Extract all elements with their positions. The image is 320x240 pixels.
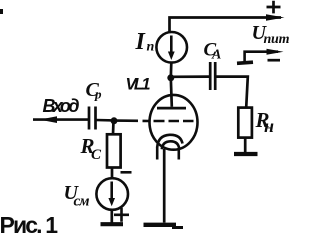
svg-text:пит: пит (264, 32, 290, 47)
anode lead (171, 78, 172, 107)
node: anode junction dot (167, 74, 174, 81)
arrow inside In (170, 36, 173, 54)
ground Ucm (101, 222, 124, 226)
terminal arrow + of Upit (266, 14, 285, 21)
grid dashed electrode (154, 120, 194, 123)
page edge mark (0, 9, 3, 14)
plus sign Ucm (114, 208, 129, 222)
minus sign Upit (268, 59, 281, 62)
wire: node to grid (114, 119, 150, 122)
negative supply terminal stub (237, 62, 253, 63)
wire: top supply rail (170, 18, 282, 32)
resistor Rn (238, 108, 252, 138)
svg-text:А: А (211, 48, 221, 63)
wire: Ucm to ground (110, 210, 113, 223)
wire: Rn to ground (244, 138, 247, 152)
wire: stub to minus arrow (245, 52, 278, 63)
svg-text:Вход: Вход (43, 96, 80, 116)
svg-text:Рис. 1: Рис. 1 (0, 212, 58, 238)
cathode arc (157, 135, 182, 148)
input wire (33, 118, 89, 121)
minus sign Ucm (121, 171, 132, 174)
heater arc (162, 141, 180, 149)
capacitor Ca (209, 62, 212, 90)
cathode left lead (156, 147, 159, 160)
tube VL1 envelope (150, 95, 198, 150)
svg-text:н: н (264, 116, 274, 136)
node: grid junction dot (111, 117, 118, 124)
terminal arrow - of Upit (267, 49, 284, 55)
plus sign Upit (267, 1, 281, 14)
wire: cathode to ground (163, 149, 166, 223)
heater right lead (178, 148, 181, 160)
input arrow (40, 116, 58, 123)
svg-text:р: р (94, 87, 102, 102)
wire: Rc to Ucm (111, 168, 114, 179)
svg-text:п: п (147, 40, 155, 55)
wire: Cp to grid node (96, 119, 114, 122)
svg-text:VL1: VL1 (126, 76, 151, 94)
svg-text:С: С (91, 147, 102, 163)
current source In circle (156, 32, 187, 63)
capacitor Cp (88, 107, 91, 130)
source Ucm circle (96, 178, 128, 210)
ground cathode (144, 223, 177, 227)
ground Rn (234, 152, 258, 156)
svg-text:см: см (74, 194, 90, 210)
wire: node to Ca (171, 75, 210, 78)
svg-text:I: I (135, 29, 147, 55)
arrow inside Ucm (110, 182, 113, 201)
resistor Rc (107, 134, 121, 167)
anode plate bar (157, 107, 186, 110)
wire: node to Rc (112, 121, 115, 135)
wire: In to anode node (169, 63, 172, 78)
wire: Ca to Rn (216, 77, 248, 108)
